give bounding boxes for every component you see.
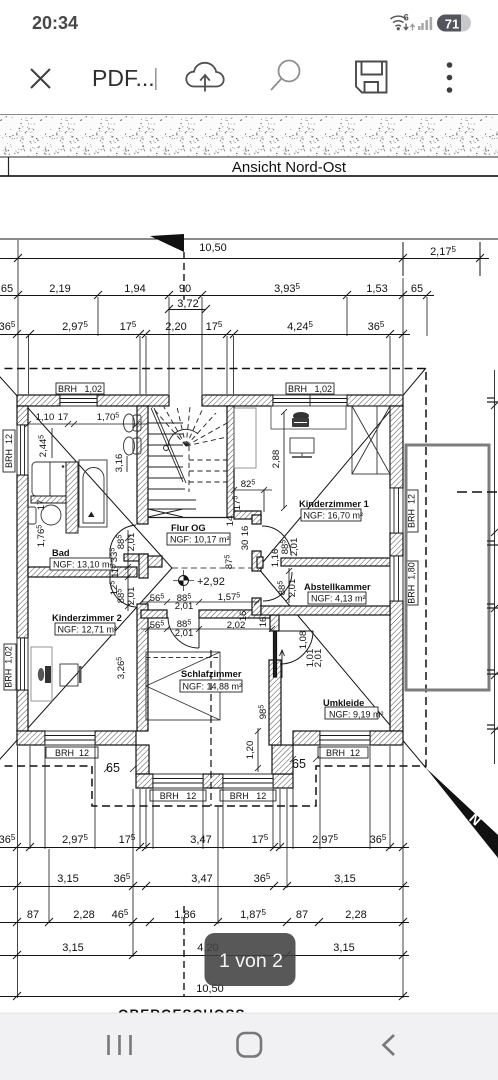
battery 71 (437, 15, 471, 32)
svg-text:BRH 12: BRH 12 (326, 748, 360, 758)
svg-text:3,47: 3,47 (190, 834, 211, 846)
TOAST (205, 933, 296, 986)
svg-text:2,19: 2,19 (49, 283, 70, 295)
svg-text:BRH 12: BRH 12 (230, 791, 267, 801)
svg-text:2,88: 2,88 (271, 450, 282, 469)
search icon (271, 61, 300, 91)
bad: toilet lower (41, 505, 61, 525)
svg-text:Kinderzimmer 1: Kinderzimmer 1 (299, 499, 369, 509)
K1 wardrobe (352, 406, 390, 474)
BOTTOM DIMENSIONS (0, 746, 409, 1000)
svg-text:+2,92: +2,92 (197, 576, 225, 588)
bad partition walls (31, 496, 66, 503)
ground hatch band (0, 114, 498, 157)
bay bottom wall segments (136, 774, 153, 788)
bad: washbasin (32, 462, 68, 496)
svg-text:2,01: 2,01 (313, 649, 324, 668)
svg-text:87: 87 (27, 909, 39, 921)
svg-text:BRH 12: BRH 12 (4, 434, 14, 468)
svg-text:2,01: 2,01 (126, 587, 137, 606)
signal bars (418, 17, 432, 30)
K1 desk (234, 408, 256, 468)
abstell door (263, 572, 292, 601)
inner dimension lines + small texts (25, 409, 292, 772)
dim chain line lower (0, 258, 489, 260)
WALLS (hatched) (17, 395, 403, 788)
svg-text:NGF: 13,10 m²: NGF: 13,10 m² (53, 560, 113, 570)
svg-text:Kinderzimmer 2: Kinderzimmer 2 (52, 613, 122, 623)
schlafzimmer door (168, 617, 199, 648)
save floppy icon (356, 62, 387, 93)
schlafzimmer bed (146, 652, 220, 720)
extension lines down to wall (18, 240, 427, 394)
svg-text:Abstellkammer: Abstellkammer (304, 582, 371, 592)
step piece (234, 511, 261, 519)
left windows (17, 425, 28, 475)
svg-text:16: 16 (240, 526, 251, 537)
dim chain line 2 (0, 295, 434, 297)
svg-text:1 von 2: 1 von 2 (219, 950, 283, 972)
top K1 window (273, 395, 347, 406)
svg-text:2,20: 2,20 (165, 321, 186, 333)
dim texts top (0, 242, 456, 333)
svg-text:71: 71 (445, 17, 459, 32)
interior: stair right V5 (227, 406, 234, 517)
K1 printer (293, 412, 309, 420)
interior: H2 flur/schlafzimmer (141, 610, 167, 618)
NAVBAR (0, 1013, 498, 1080)
svg-text:10,50: 10,50 (199, 242, 227, 254)
svg-text:2,28: 2,28 (345, 909, 366, 921)
svg-text:87: 87 (296, 909, 308, 921)
svg-text:Bad: Bad (52, 548, 70, 558)
right windows (390, 488, 403, 533)
svg-text:NGF: 16,70 m²: NGF: 16,70 m² (304, 511, 364, 521)
svg-text:3,15: 3,15 (333, 942, 354, 954)
svg-text:90: 90 (179, 283, 191, 295)
bad: bathtub (79, 460, 107, 527)
close X (31, 69, 50, 88)
roof overhang dashed outline (0, 369, 426, 807)
svg-text:BRH 12: BRH 12 (55, 748, 89, 758)
svg-text:3,16: 3,16 (114, 454, 125, 473)
TOOLBAR (31, 61, 452, 93)
top bad window (60, 395, 97, 406)
hip roof diagonals (0, 368, 426, 768)
north arrow (426, 768, 498, 858)
bottom wall left (17, 731, 45, 745)
right wall segments (390, 406, 403, 488)
ticks (14, 254, 484, 262)
dim chain line 3 (0, 334, 410, 336)
section marker triangle (150, 234, 184, 252)
interior: V3 schlafzimmer/umkleide (270, 615, 279, 631)
bottom wall right (293, 731, 320, 745)
right edge dimension fragments (487, 370, 498, 764)
svg-text:NGF: 4,13 m²: NGF: 4,13 m² (311, 594, 366, 604)
svg-text:3,15: 3,15 (57, 873, 78, 885)
svg-text:NGF: 14,88 m²: NGF: 14,88 m² (183, 682, 243, 692)
svg-text:16: 16 (238, 611, 249, 622)
DOORS (110, 525, 313, 678)
interior: bad bottom H1 (28, 567, 137, 577)
svg-text:1,08: 1,08 (298, 631, 309, 650)
STAIRS (148, 407, 227, 518)
left wall segments (17, 406, 28, 425)
svg-text:BRH 12: BRH 12 (407, 494, 417, 528)
svg-text:3,15: 3,15 (334, 873, 355, 885)
svg-text:BRH 12: BRH 12 (160, 791, 197, 801)
svg-text:65: 65 (411, 283, 423, 295)
interior: H3 K1/abstell (281, 558, 390, 566)
svg-text:BRH 1,02: BRH 1,02 (288, 384, 332, 394)
svg-text:17: 17 (36, 500, 47, 511)
svg-text:6: 6 (404, 13, 409, 24)
svg-text:1,20: 1,20 (245, 741, 256, 760)
bay right pier (272, 745, 293, 774)
kebab menu (447, 62, 453, 93)
flur stub (148, 556, 162, 567)
WINDOWS (17, 395, 403, 788)
svg-text:16: 16 (258, 617, 269, 628)
svg-text:65: 65 (1, 283, 13, 295)
svg-text:NGF: 12,71 m²: NGF: 12,71 m² (58, 625, 118, 635)
svg-text:2,01: 2,01 (175, 628, 194, 639)
svg-text:2,01: 2,01 (126, 533, 137, 552)
svg-text:1,94: 1,94 (124, 283, 145, 295)
terrace gray rectangle (406, 445, 489, 690)
svg-text:3,15: 3,15 (62, 942, 83, 954)
svg-text:NGF: 10,17 m²: NGF: 10,17 m² (170, 535, 230, 545)
umkleide door (280, 631, 313, 664)
K1 monitor (290, 438, 314, 453)
STATUS BAR (32, 13, 471, 34)
svg-text:Umkleide: Umkleide (323, 698, 364, 708)
svg-text:65: 65 (292, 757, 306, 771)
bad: wc (124, 414, 135, 432)
cloud upload icon (186, 63, 223, 92)
level marker (173, 570, 225, 591)
svg-text:3,72: 3,72 (177, 298, 198, 310)
svg-text:BRH 1,02: BRH 1,02 (58, 384, 102, 394)
bottom-right window (320, 731, 370, 745)
bay windows (153, 774, 203, 788)
svg-text:NGF: 9,19 m²: NGF: 9,19 m² (329, 710, 384, 720)
bad door (110, 525, 136, 551)
top wall segments (17, 395, 60, 406)
svg-text:BRH 1,80: BRH 1,80 (407, 562, 417, 604)
bay 65 texts (106, 757, 306, 775)
interior: K2 right V2 (137, 604, 148, 731)
dim 3,72 line (169, 309, 206, 311)
bay left wall (136, 745, 149, 774)
svg-text:17: 17 (58, 412, 69, 423)
svg-text:1,86: 1,86 (174, 909, 195, 921)
svg-text:Flur OG: Flur OG (171, 523, 206, 533)
interior: H4 abstell bottom (261, 606, 390, 615)
svg-text:3,47: 3,47 (191, 873, 212, 885)
section dashed line through schlafzimmer (210, 650, 212, 806)
dim chain line 10,50 / 2,17 upper (0, 238, 498, 240)
svg-text:PDF...: PDF... (92, 65, 155, 91)
dash-dot reference line right (457, 491, 498, 493)
section dashed bottom (183, 906, 185, 996)
svg-text:14: 14 (225, 516, 236, 527)
extension lines (18, 746, 404, 998)
FURNITURE (28, 406, 390, 720)
section dashed line top (183, 252, 185, 300)
K1 door (262, 526, 291, 555)
svg-text:BRH 1,02: BRH 1,02 (4, 646, 14, 688)
svg-text:20:34: 20:34 (32, 13, 78, 33)
interior: bad/stair wall V1 (137, 406, 148, 524)
BRH boxes (3, 383, 418, 801)
K2 door (110, 581, 136, 607)
interior: lobby V4 pieces (252, 515, 261, 524)
svg-text:2,28: 2,28 (73, 909, 94, 921)
svg-text:2,01: 2,01 (175, 601, 194, 612)
wifi icon (391, 16, 407, 26)
svg-text:2,01: 2,01 (289, 538, 300, 557)
svg-text:1,10: 1,10 (36, 412, 55, 423)
svg-text:2,01: 2,01 (287, 579, 298, 598)
svg-text:1,53: 1,53 (366, 283, 387, 295)
ROOM LABELS (50, 499, 384, 720)
bottom-left window (45, 731, 95, 745)
svg-text:30: 30 (240, 540, 251, 551)
svg-text:Ansicht Nord-Ost: Ansicht Nord-Ost (232, 159, 347, 176)
K2 desk group (31, 647, 52, 701)
